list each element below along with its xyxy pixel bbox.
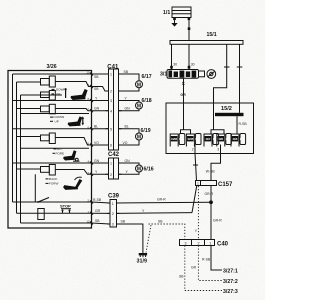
wire junction to C40 pin 1 [211,202,222,239]
svg-text:SB: SB [95,219,100,223]
dashed wire C157 to C40 pin 2 [195,186,199,240]
wire X into 15/2 [183,103,185,130]
pin ticks on 3/26 right edge [90,73,93,225]
row 3 seat icon [63,150,76,160]
wire SB from C39 pin 3 to ground [117,220,143,253]
svg-text:3: 3 [110,99,112,103]
svg-text:FORE: FORE [56,151,65,155]
bridge fuses 11/16 11/15 [181,130,191,134]
row 3 label AFT/FORE [53,147,65,155]
motor 6/16 [136,165,154,173]
svg-text:3/27:1: 3/27:1 [223,269,238,275]
wire Y from C39 pin 2 [117,209,193,214]
svg-text:VO: VO [123,141,128,145]
svg-text:M: M [137,82,141,88]
fuse box 15/2 [166,103,254,154]
svg-text:GR-R: GR-R [205,192,214,196]
connector C41 [106,65,122,150]
bus bar 15/1 [170,32,243,45]
bottom switch [37,198,49,203]
bus wire vertical B [16,82,18,213]
svg-text:W-SB: W-SB [206,170,216,174]
row 2 label DOWN/UP [50,115,64,123]
fuse 11/15 [186,134,201,147]
row 1 switch lever [65,88,67,98]
svg-text:15/1: 15/1 [207,32,217,38]
svg-text:3: 3 [217,148,219,152]
pin numbers on 3/26 edge [87,71,90,224]
wires 3/26 to C41 with labels [92,74,109,145]
svg-text:FORW: FORW [49,182,58,186]
wire fuse 11/5 to C157 [206,154,221,181]
svg-text:1: 1 [110,162,112,166]
row 2 top wire [13,100,92,102]
wires 3/26 to C39 with labels [92,198,111,224]
svg-text:SB: SB [121,220,126,224]
row 4 top wire [13,162,92,164]
svg-text:SB: SB [124,70,129,74]
motor 6/17 [136,74,152,88]
row 2 connector plug [41,106,50,112]
svg-text:6: 6 [110,144,112,148]
connector C39 [107,194,120,228]
row 1 switch output wire [55,82,91,87]
svg-text:2: 2 [198,241,200,245]
svg-text:3/26: 3/26 [47,64,57,70]
wire C157 to junction GR-R [205,186,214,203]
row 3 connector plug [41,135,50,141]
fuse 11/15 output pin 2 [192,145,195,154]
stop switch [60,204,71,214]
svg-text:SB: SB [179,275,184,279]
seat switch module 3/26 box [8,64,92,228]
row 1 bottom wire [21,94,63,96]
svg-text:BACK: BACK [49,177,58,181]
row 3 lower wire [21,147,90,149]
row 4 label BACK/FORW [46,177,59,186]
dashed C40 pin2 to 3/27:2 [191,246,238,286]
wire C40 pin1 to 3/27:1 [202,246,238,275]
svg-text:SB: SB [158,220,163,224]
svg-text:R-SB: R-SB [93,198,102,202]
svg-text:2: 2 [112,212,114,216]
wire motor 6/17 to C41 pin2 [119,88,140,91]
bus wire vertical C [20,95,22,223]
svg-text:GR-R: GR-R [213,219,222,223]
svg-text:4: 4 [110,109,112,113]
wire inside 15/2 to fuse bridge left [213,103,215,130]
bottom switch wire [13,201,92,203]
row 1 connector plug b [41,92,50,98]
svg-text:2: 2 [192,148,194,152]
svg-text:GR: GR [191,266,197,270]
svg-text:GR: GR [180,93,186,97]
row 3 top wire [13,128,92,130]
ground 31/9 [137,253,148,265]
row 1 label DOWN/UP [52,88,66,97]
relay wire [17,212,92,214]
svg-text:1: 1 [110,73,112,77]
ignition switch 3/1 [160,70,216,86]
svg-text:GR-R: GR-R [157,198,166,202]
wire battery to fuse bar [188,20,190,40]
svg-text:UP: UP [55,119,59,123]
svg-text:AFT: AFT [57,147,63,151]
svg-text:3: 3 [112,223,114,227]
svg-text:C40: C40 [217,242,229,248]
row 3 arrow [75,158,78,161]
connector C40 [180,240,229,248]
row 4 seat icon [63,177,82,190]
wire bar to bus bar in 15/2 [237,44,243,113]
svg-text:1: 1 [197,182,199,186]
wire row4 to switch row [34,174,36,202]
svg-text:GN: GN [125,107,131,111]
fuse 11/5 [217,134,232,147]
wire C42 pin1 to motor 6/16 [119,159,140,165]
svg-text:11/5: 11/5 [218,137,223,141]
wire GR-R from C39 pin 1 to junction [117,198,212,204]
wire motor 6/18 to C41 pin4 [119,107,140,111]
wire motor 6/19 to C41 pin6 [119,140,140,145]
row 1 connector plug a [41,79,50,86]
svg-text:30: 30 [173,62,177,66]
svg-text:15/2: 15/2 [221,106,232,112]
bottom SB wire [21,222,92,224]
svg-text:M: M [137,167,141,173]
svg-text:6/17: 6/17 [142,74,152,80]
svg-text:M: M [137,135,141,141]
svg-text:1/1: 1/1 [163,10,170,16]
svg-text:C157: C157 [218,182,233,188]
svg-text:SB: SB [94,87,99,91]
dashed diagonal to ground [146,225,151,253]
relay coil [38,209,44,220]
wire C41 pin5 to motor 6/19 [119,125,140,134]
svg-text:SB: SB [94,75,99,79]
dashed wire SB to C40 pin 3 [149,220,185,240]
row 3 bottom wire [55,138,91,146]
svg-text:11/15: 11/15 [187,137,194,141]
svg-text:6/19: 6/19 [141,128,151,134]
wire ignition X to fuses 11/16 11/15 [180,78,186,103]
svg-text:6/18: 6/18 [142,98,152,104]
svg-text:GN: GN [94,159,100,163]
svg-text:3: 3 [185,241,187,245]
svg-text:1: 1 [112,202,114,206]
svg-text:11/6: 11/6 [232,137,237,141]
wires 3/26 to C42 with labels [92,159,109,175]
wire fuse 11/15 to C157 [193,154,198,181]
svg-text:11/7: 11/7 [205,137,210,141]
row 2 plug wire [17,108,41,110]
svg-text:BL: BL [125,125,129,129]
wire bar to ignition pin 30 (right) [188,44,195,69]
motor 6/19 [136,128,151,141]
row 4 connector plug [41,167,50,173]
svg-text:5: 5 [110,127,112,131]
ground at battery [171,20,177,27]
motor 6/18 [136,98,152,110]
wire bus bar to fuse 11/6 [237,116,247,133]
row 4 plug wire [17,168,41,170]
wire bar to fuses 11/7 11/5 [214,44,230,103]
node junction [209,200,213,204]
row 1 top wire [13,73,92,75]
wire C41 pin1 to motor 6/17 [119,70,140,81]
fuse 11/5 output pin 3 [217,145,220,154]
svg-text:M: M [137,104,141,110]
bus wire vertical A [12,74,14,202]
svg-text:DOWN: DOWN [56,88,66,92]
svg-text:C42: C42 [108,152,120,158]
svg-text:GN: GN [94,107,100,111]
row 2 seat icon [68,116,83,126]
svg-text:3/27:3: 3/27:3 [223,289,238,295]
svg-text:R-SB: R-SB [239,122,248,126]
svg-text:3/27:2: 3/27:2 [223,279,238,285]
svg-text:11/16: 11/16 [171,137,178,141]
fuse 11/7 [204,134,219,147]
svg-text:UP: UP [56,92,60,96]
connector C42 [106,152,122,179]
svg-text:2: 2 [110,173,112,177]
wire bar to ignition pin 30 (left) [170,44,177,69]
svg-text:GN: GN [125,159,131,163]
svg-text:30: 30 [191,62,195,66]
bridge fuses 11/7 11/5 [211,130,224,134]
row 1 plug wire [17,81,41,83]
svg-text:C39: C39 [108,194,120,200]
svg-text:R-SB: R-SB [202,257,211,261]
fuse 11/6 [231,134,246,147]
wire motor 6/16 to C42 pin2 [119,170,140,174]
svg-text:STOP: STOP [60,204,71,209]
svg-text:3/1: 3/1 [160,72,167,78]
svg-text:2: 2 [110,90,112,94]
row 2 arrow bar [82,116,85,125]
svg-text:1: 1 [210,241,212,245]
svg-text:6/16: 6/16 [144,166,154,172]
row 1 seat icon [71,89,88,100]
row 2 bottom wire [55,109,91,111]
row 2 lower wire [21,113,90,115]
dashed C40 pin3 to 3/27:3 [179,246,238,296]
connector C157 [196,181,234,189]
wire C41 pin3 to motor 6/18 [119,96,140,102]
row 4 bottom wire [55,170,91,175]
bus bar inside 15/2 [215,113,244,116]
svg-text:BL: BL [94,125,98,129]
wire C157 diagonal to Y wire [192,186,197,213]
fuse 11/16 [170,134,185,147]
battery 1/1 [163,7,191,20]
svg-text:GR: GR [95,209,101,213]
svg-text:VO: VO [94,141,99,145]
row 3 plug wire [17,136,41,138]
svg-text:31/9: 31/9 [137,259,148,265]
